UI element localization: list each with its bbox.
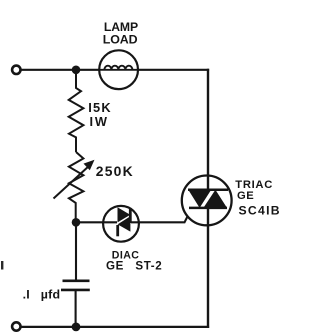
resistor R1 15K 1W	[69, 70, 84, 152]
svg-text:.I µfd: .I µfd	[23, 288, 61, 302]
triac U1 circle	[182, 176, 232, 226]
svg-text:TRIAC: TRIAC	[235, 179, 273, 191]
diac symbol triangles	[118, 207, 131, 222]
diac bar left	[116, 225, 119, 236]
svg-text:GE: GE	[237, 190, 254, 202]
diac bar right	[129, 208, 132, 223]
wire right vertical upper (to triac MT2)	[207, 69, 209, 191]
potentiometer arrow	[54, 166, 90, 199]
lamp filament coils	[104, 66, 132, 70]
lamp LOAD circle	[99, 50, 138, 89]
wire bottom	[21, 326, 210, 328]
svg-text:LOAD: LOAD	[103, 33, 138, 47]
wire capacitor to bottom	[75, 291, 77, 329]
triac triangle left (down)	[188, 190, 211, 208]
svg-text:IW: IW	[90, 114, 109, 129]
scan artifact left edge	[1, 261, 3, 270]
node junction dot mid (gate node)	[72, 218, 81, 227]
node junction dot bottom	[72, 323, 81, 332]
triac vertical lead inside	[207, 176, 209, 191]
triac triangle right (up)	[203, 190, 227, 208]
wire top: terminal to lamp	[21, 69, 101, 71]
wire junction to capacitor	[75, 222, 77, 280]
terminal bottom-left	[12, 322, 20, 330]
wire lamp to top-right corner	[138, 69, 209, 71]
wire right vertical lower (triac MT1 to bottom)	[207, 208, 209, 328]
diac circle D1	[103, 206, 139, 242]
triac top bar	[188, 188, 228, 191]
capacitor C1 plates	[63, 279, 90, 282]
triac bottom bar	[189, 207, 227, 210]
svg-text:250K: 250K	[96, 163, 134, 179]
terminal top-left	[12, 66, 20, 74]
potentiometer R2 250K zigzag	[69, 152, 84, 219]
lamp filament line	[99, 69, 138, 71]
svg-text:I5K: I5K	[88, 100, 112, 115]
svg-text:SC4IB: SC4IB	[239, 204, 281, 218]
wire gate: junction through diac to triac gate	[76, 208, 192, 222]
svg-text:GE ST-2: GE ST-2	[106, 260, 162, 273]
node junction dot top	[72, 66, 81, 75]
